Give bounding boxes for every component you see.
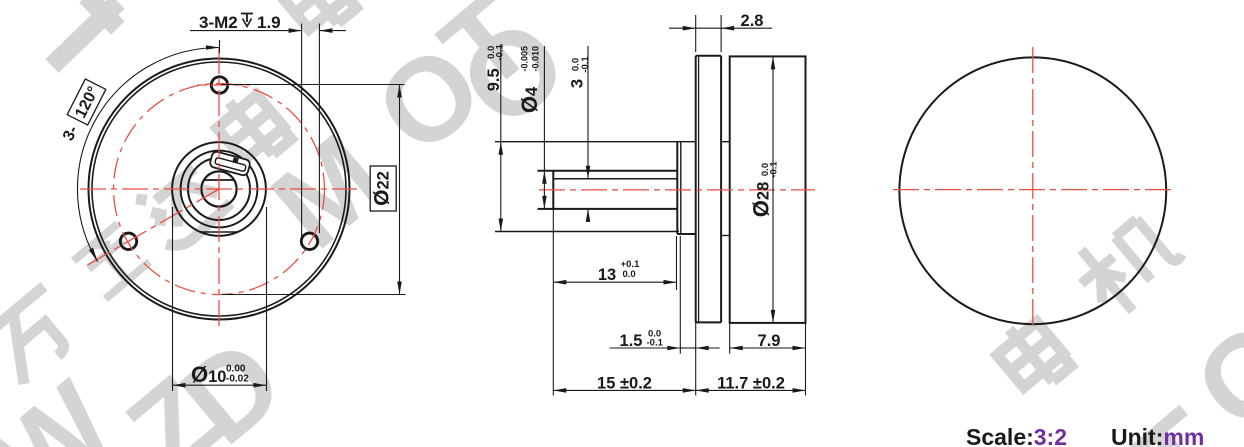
shaft flat line xyxy=(553,178,677,180)
arrow 9.5 top xyxy=(499,142,504,155)
outer circle xyxy=(89,59,350,320)
svg-text:13: 13 xyxy=(598,266,616,284)
svg-text:-0.010: -0.010 xyxy=(531,46,541,72)
red centerline vertical right view xyxy=(1032,47,1034,330)
middle dims xyxy=(501,15,806,395)
arrow 9.5 bottom xyxy=(499,219,504,232)
ext 13 left / 15 left xyxy=(552,209,554,396)
tail right of 1.9 xyxy=(319,30,346,32)
arrow D4 top xyxy=(542,171,547,184)
arrow D28 top xyxy=(771,56,776,69)
ext line D10 right xyxy=(266,207,268,391)
wm stroke partial top-left xyxy=(52,0,118,66)
dim line D22 xyxy=(399,85,401,295)
wm CN 万 xyxy=(0,286,84,385)
svg-text:-0.1: -0.1 xyxy=(494,43,505,60)
hub circle inner xyxy=(188,158,250,220)
dim line D10 xyxy=(173,384,267,386)
arrow 13 left xyxy=(553,280,566,285)
arrow 7.9 left xyxy=(730,346,743,351)
bolt circle red dashed xyxy=(114,84,325,295)
neck bottom xyxy=(721,235,730,237)
flange chamfer xyxy=(698,56,700,323)
key tab outer xyxy=(209,151,251,177)
rotated labels middle xyxy=(485,43,779,217)
hub circle D10 xyxy=(172,142,266,236)
dim 7.9 line xyxy=(730,347,806,349)
dim 1.5 line xyxy=(610,347,681,349)
hub flat chord xyxy=(199,231,239,233)
key tab dot xyxy=(232,157,238,163)
label D22 boxed xyxy=(370,166,396,211)
arrow arc top xyxy=(206,45,219,50)
neck top xyxy=(721,141,730,143)
svg-text:-0.1: -0.1 xyxy=(647,338,664,349)
ext 7.9 left xyxy=(729,324,731,354)
red tick top hole xyxy=(197,84,250,86)
key tab inner detail xyxy=(215,157,247,171)
red centerline middle xyxy=(539,189,815,191)
svg-text:9.5: 9.5 xyxy=(485,68,503,91)
mounting hole lower-left xyxy=(120,233,136,249)
dim 3 line lower xyxy=(587,209,589,222)
boss bottom xyxy=(677,233,695,235)
wm CN 机 right xyxy=(1064,202,1189,325)
ext 2.8 left xyxy=(695,15,697,52)
dim 15 line xyxy=(553,389,695,391)
mounting hole lower-right xyxy=(301,233,317,249)
red centerline vertical xyxy=(218,48,220,331)
ext line D22 bottom xyxy=(222,294,406,296)
label 3-M2 depth 1.9 xyxy=(199,13,281,32)
shaft top xyxy=(538,170,678,172)
ext line 1.9 B xyxy=(318,24,320,234)
dim 11.7 line xyxy=(696,389,806,391)
arrow 3 bottom xyxy=(586,209,591,222)
shaft circle with flat xyxy=(201,171,236,206)
wm CN 电 right xyxy=(989,313,1073,399)
dim 9.5 line xyxy=(500,44,502,232)
svg-text:3: 3 xyxy=(569,79,587,88)
boss top + ext 9.5 xyxy=(495,141,696,143)
boss chamfer line xyxy=(680,142,682,234)
arrow 13 right xyxy=(664,280,677,285)
boss left face xyxy=(676,142,678,234)
ext line D10 left xyxy=(172,207,174,391)
wm CN 电 xyxy=(209,86,293,172)
arrow D22 down xyxy=(397,282,402,295)
arrow 2.8 left xyxy=(683,26,696,31)
body outline xyxy=(730,56,806,323)
dim D28 line xyxy=(772,56,774,323)
svg-text:0.0: 0.0 xyxy=(623,269,636,280)
arrow 2.8 right xyxy=(721,26,734,31)
ext 1.5 left xyxy=(679,236,681,354)
chamfer circle xyxy=(92,62,346,316)
depth symbol xyxy=(241,14,253,27)
ext 2.8 right xyxy=(720,15,722,52)
arrow arc bottom xyxy=(89,248,98,262)
dim 13 line xyxy=(553,281,676,283)
arrow 11.7 left xyxy=(696,388,709,393)
back circle xyxy=(899,57,1166,324)
ext line D22 top xyxy=(221,84,405,86)
svg-text:3-M2: 3-M2 xyxy=(199,13,238,32)
svg-text:-0.1: -0.1 xyxy=(580,56,591,73)
arrow 3M2 right xyxy=(289,28,302,33)
flange bottom xyxy=(696,321,721,323)
svg-text:Scale:3:2: Scale:3:2 xyxy=(966,424,1067,447)
dim D4 line xyxy=(543,46,545,209)
flange left edge xyxy=(695,56,697,323)
arrow 3 top xyxy=(586,166,591,179)
red radial to LL hole xyxy=(87,189,219,265)
svg-text:15 ±0.2: 15 ±0.2 xyxy=(597,375,652,393)
arrow D10 right xyxy=(254,383,267,388)
dim 3 line upper xyxy=(587,46,589,179)
red centerline horizontal xyxy=(80,188,357,190)
arrow 1.5 right xyxy=(696,346,709,351)
svg-text:1.9: 1.9 xyxy=(257,13,281,32)
shaft bottom xyxy=(538,208,678,210)
ext 7.9/11.7 right xyxy=(805,324,807,396)
label 3-120 box xyxy=(67,79,106,125)
flange right edge xyxy=(720,56,722,323)
arrow 7.9 right xyxy=(793,346,806,351)
ext 13 right xyxy=(676,236,678,290)
ext 15/11.7 mid xyxy=(695,322,697,395)
svg-text:-0.02: -0.02 xyxy=(226,374,249,385)
mounting hole top xyxy=(211,77,227,93)
wm CN 至 xyxy=(73,224,149,299)
ext line 1.9 A xyxy=(301,24,303,238)
arrow 11.7 right xyxy=(793,388,806,393)
svg-text:1.5: 1.5 xyxy=(620,332,643,350)
wm CN 达 xyxy=(132,154,233,254)
arrow D4 bottom xyxy=(542,196,547,209)
svg-text:2.8: 2.8 xyxy=(741,12,764,30)
arrow D22 up xyxy=(397,85,402,98)
dim 2.8 line xyxy=(669,27,696,29)
angular dim arc 120 xyxy=(77,47,219,261)
svg-text:-0.005: -0.005 xyxy=(520,46,530,72)
svg-text:Unit:mm: Unit:mm xyxy=(1111,424,1204,447)
red centerline horizontal right view xyxy=(893,189,1173,191)
ext tick above top hole xyxy=(219,40,221,53)
svg-text:11.7 ±0.2: 11.7 ±0.2 xyxy=(717,375,785,393)
flange top xyxy=(696,55,721,57)
hub circle mid xyxy=(181,151,258,228)
arrow 1.5 left xyxy=(667,346,680,351)
tol D10 xyxy=(226,364,249,385)
svg-text:Ø22: Ø22 xyxy=(371,171,394,206)
dims of left view xyxy=(77,24,405,392)
middle dim texts xyxy=(597,12,785,393)
wm CN 电 partial top xyxy=(274,0,358,40)
arrow 1.9 left xyxy=(319,28,332,33)
svg-text:-0.1: -0.1 xyxy=(768,161,779,178)
arrow D28 bottom xyxy=(771,310,776,323)
footer scale/unit xyxy=(966,424,1204,447)
arrow 15 left xyxy=(553,388,566,393)
svg-text:7.9: 7.9 xyxy=(758,332,781,350)
arrow 15 right xyxy=(683,388,696,393)
leader shelf 3-M2 xyxy=(190,30,302,32)
shaft tip edge xyxy=(552,171,554,209)
arrow D10 left xyxy=(173,383,186,388)
boss flat 9.5 line xyxy=(495,231,679,233)
